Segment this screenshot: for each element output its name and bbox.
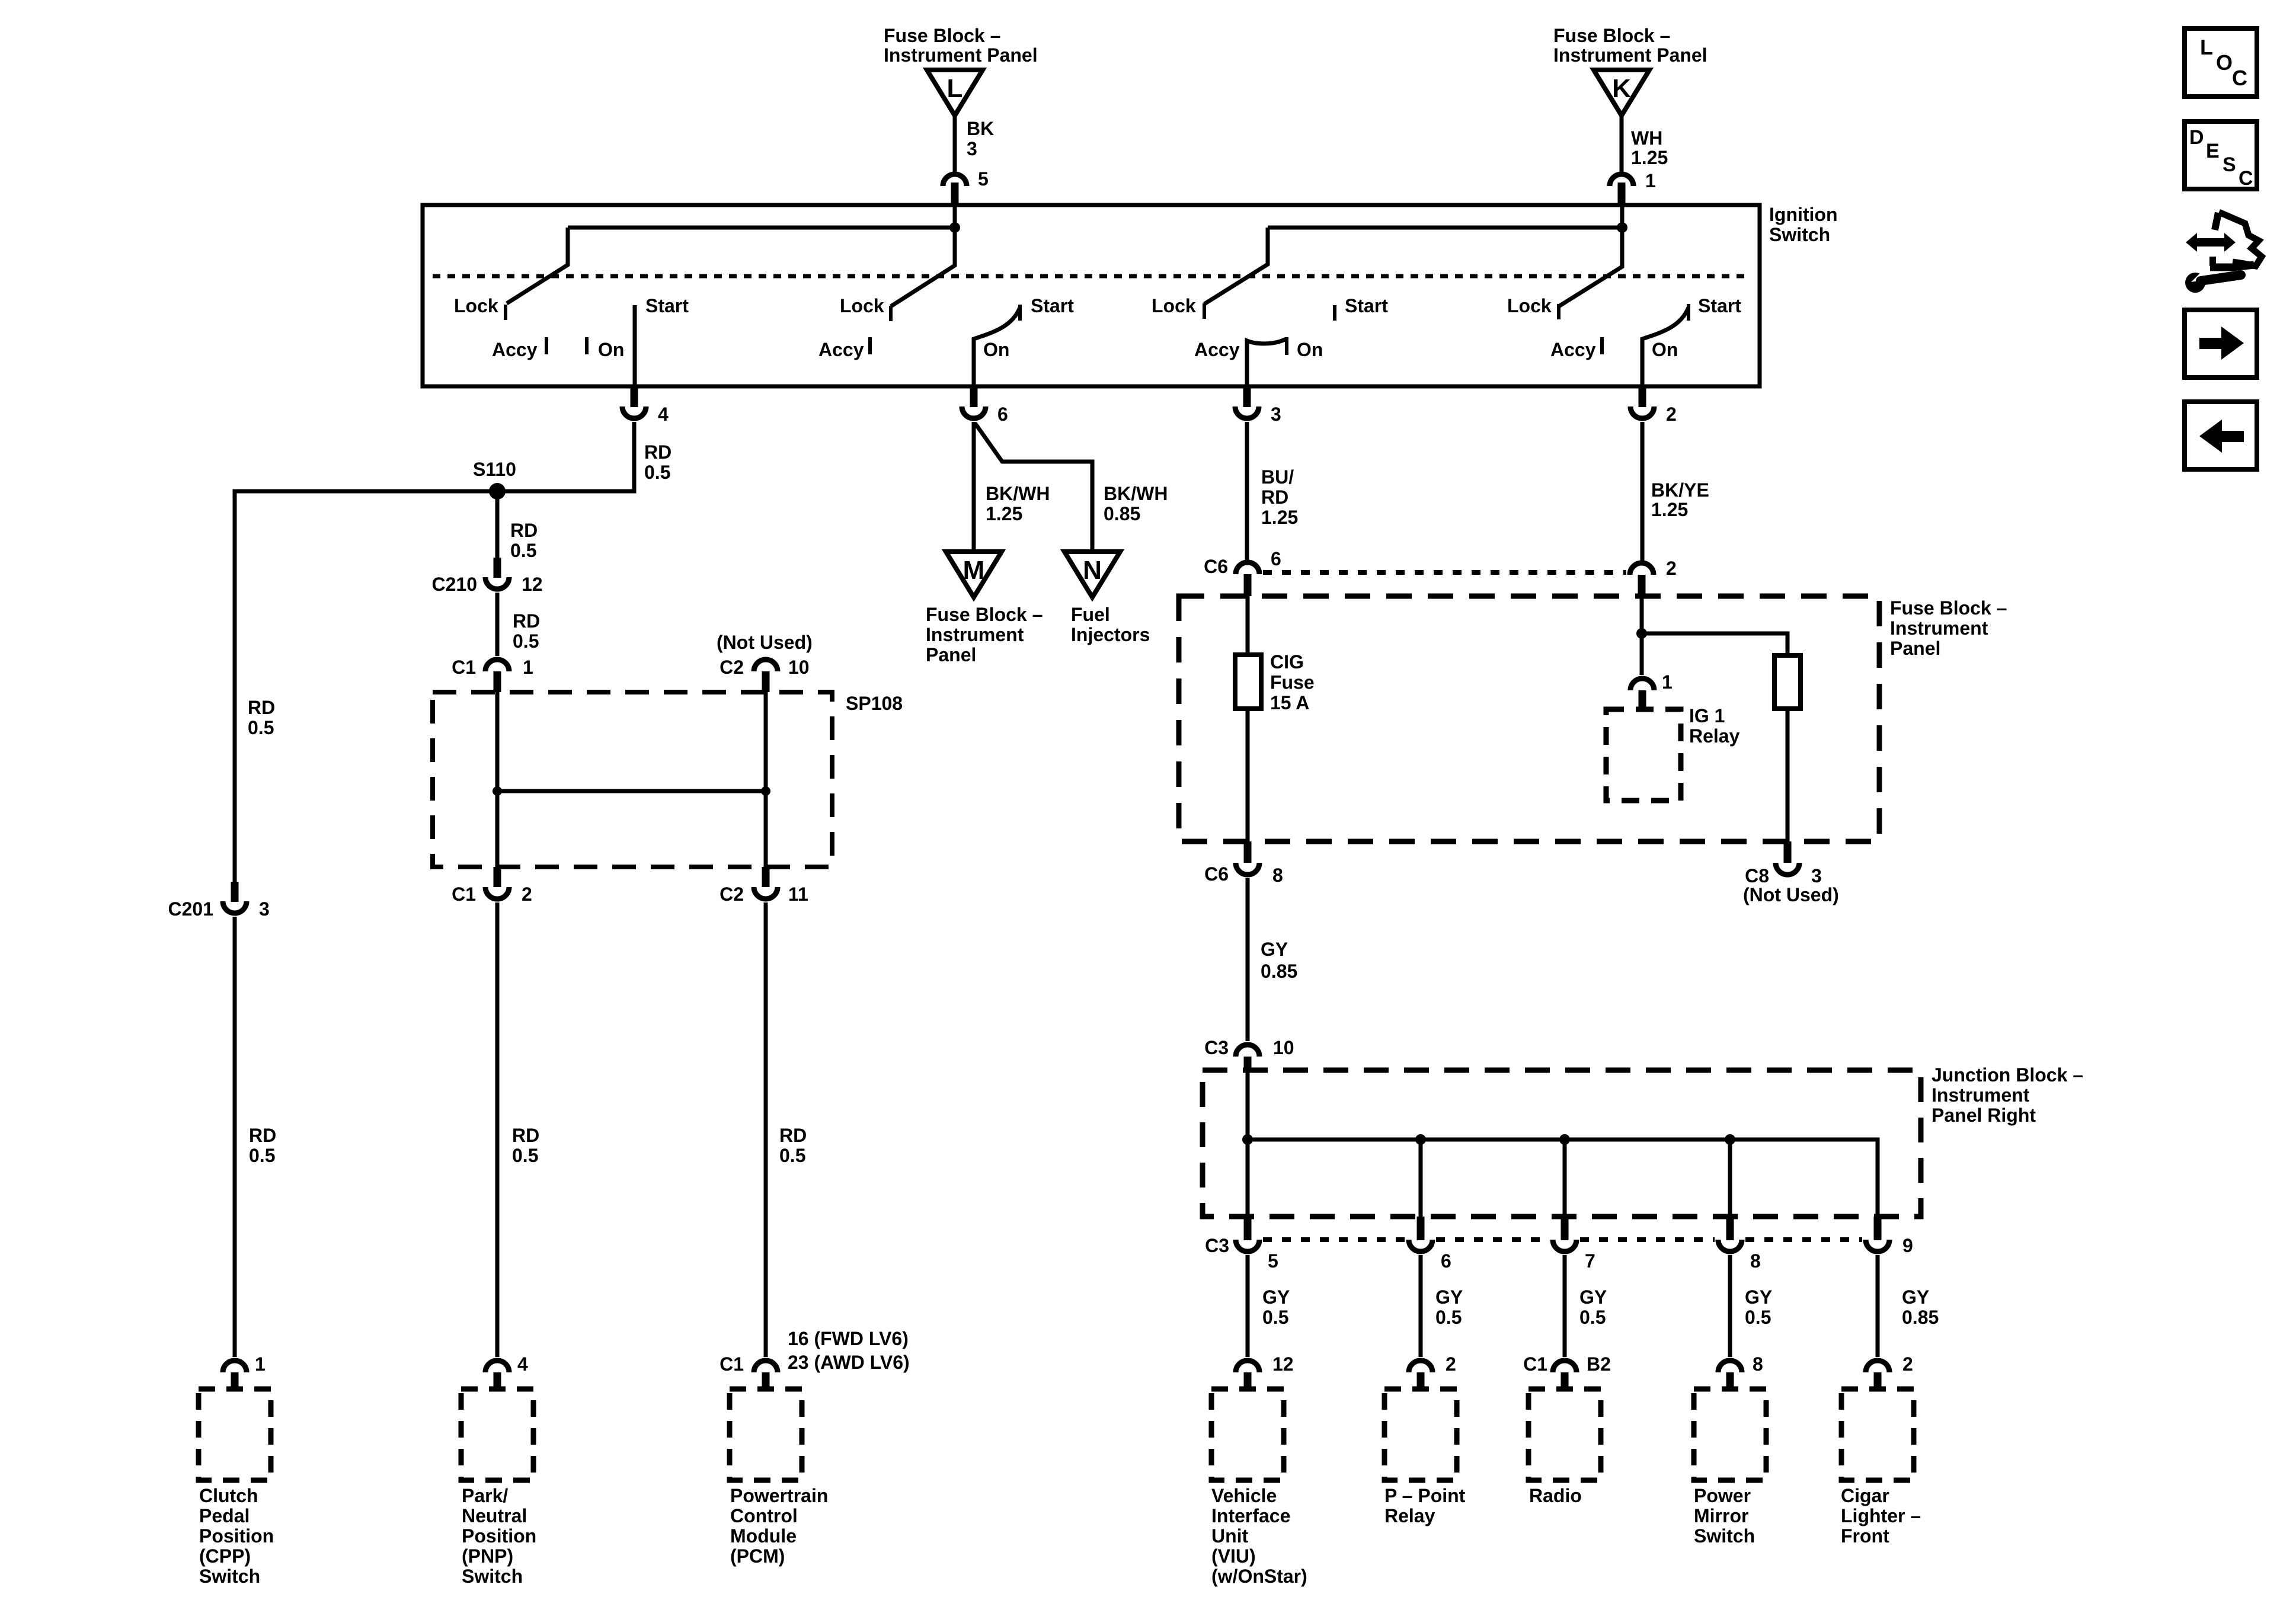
- svg-text:Cigar: Cigar: [1841, 1485, 1889, 1506]
- svg-text:S: S: [2223, 153, 2236, 176]
- svg-text:Accy: Accy: [818, 339, 864, 360]
- svg-text:C8: C8: [1745, 865, 1769, 886]
- svg-text:Relay: Relay: [1689, 725, 1740, 747]
- svg-text:6: 6: [997, 404, 1008, 425]
- svg-text:P – Point: P – Point: [1384, 1485, 1466, 1506]
- svg-text:CIG: CIG: [1270, 651, 1304, 673]
- svg-text:2: 2: [1902, 1353, 1913, 1375]
- svg-text:2: 2: [522, 884, 532, 905]
- svg-text:C6: C6: [1204, 863, 1229, 885]
- svg-text:RD: RD: [1261, 486, 1288, 508]
- svg-text:Position: Position: [199, 1525, 274, 1547]
- svg-text:Lock: Lock: [1507, 295, 1552, 316]
- svg-text:1: 1: [523, 657, 533, 678]
- svg-text:1: 1: [255, 1353, 266, 1375]
- svg-text:1.25: 1.25: [1651, 499, 1688, 520]
- svg-text:O: O: [2216, 50, 2233, 75]
- svg-text:4: 4: [517, 1353, 528, 1375]
- svg-text:Instrument Panel: Instrument Panel: [1553, 44, 1707, 66]
- svg-text:2: 2: [1666, 404, 1677, 425]
- svg-text:GY: GY: [1902, 1286, 1929, 1308]
- svg-text:2: 2: [1446, 1353, 1456, 1375]
- svg-text:Fuse Block –: Fuse Block –: [926, 604, 1043, 625]
- svg-text:4: 4: [658, 404, 669, 425]
- svg-text:C201: C201: [168, 898, 214, 920]
- svg-text:1.25: 1.25: [1261, 507, 1298, 528]
- svg-text:0.85: 0.85: [1902, 1307, 1939, 1328]
- svg-text:Mirror: Mirror: [1694, 1505, 1748, 1526]
- svg-text:0.5: 0.5: [248, 717, 274, 738]
- svg-text:Interface: Interface: [1211, 1505, 1290, 1526]
- svg-text:3: 3: [259, 898, 270, 920]
- svg-text:Instrument: Instrument: [1932, 1084, 2030, 1106]
- svg-text:SP108: SP108: [846, 693, 903, 714]
- svg-text:(Not Used): (Not Used): [1743, 884, 1839, 905]
- svg-text:5: 5: [1268, 1250, 1278, 1272]
- svg-text:Position: Position: [462, 1525, 536, 1547]
- svg-text:BK/WH: BK/WH: [1104, 483, 1168, 504]
- svg-text:GY: GY: [1261, 939, 1288, 960]
- svg-text:C3: C3: [1204, 1037, 1229, 1058]
- svg-text:C2: C2: [720, 884, 744, 905]
- svg-text:Neutral: Neutral: [462, 1505, 527, 1526]
- svg-text:Vehicle: Vehicle: [1211, 1485, 1277, 1506]
- svg-text:(Not Used): (Not Used): [717, 632, 813, 653]
- svg-text:BK: BK: [967, 118, 994, 139]
- svg-text:0.85: 0.85: [1261, 961, 1297, 982]
- svg-text:Panel Right: Panel Right: [1932, 1105, 2036, 1126]
- svg-text:E: E: [2206, 140, 2220, 162]
- svg-text:Start: Start: [645, 295, 689, 316]
- svg-text:0.5: 0.5: [779, 1145, 805, 1166]
- svg-text:RD: RD: [513, 610, 540, 632]
- svg-text:D: D: [2189, 126, 2204, 149]
- svg-text:Fuse Block –: Fuse Block –: [884, 25, 1000, 46]
- svg-text:Switch: Switch: [1694, 1525, 1755, 1547]
- svg-text:C1: C1: [1523, 1353, 1547, 1375]
- svg-text:1: 1: [1645, 170, 1656, 191]
- svg-text:Panel: Panel: [1890, 638, 1940, 659]
- svg-text:Instrument: Instrument: [926, 624, 1024, 645]
- svg-text:8: 8: [1272, 865, 1283, 886]
- svg-text:C6: C6: [1204, 556, 1228, 577]
- svg-text:RD: RD: [249, 1125, 276, 1146]
- svg-text:Lock: Lock: [1152, 295, 1196, 316]
- svg-text:B2: B2: [1587, 1353, 1611, 1375]
- svg-text:WH: WH: [1631, 127, 1662, 149]
- svg-text:9: 9: [1902, 1235, 1913, 1256]
- svg-text:RD: RD: [644, 441, 671, 463]
- svg-text:15 A: 15 A: [1270, 692, 1309, 713]
- svg-text:(VIU): (VIU): [1211, 1545, 1256, 1567]
- svg-text:Clutch: Clutch: [199, 1485, 258, 1506]
- svg-text:6: 6: [1271, 548, 1281, 569]
- svg-text:Start: Start: [1698, 295, 1741, 316]
- svg-text:1: 1: [1662, 671, 1673, 693]
- svg-text:C2: C2: [720, 657, 744, 678]
- svg-text:N: N: [1083, 556, 1102, 585]
- svg-text:0.5: 0.5: [513, 630, 539, 652]
- svg-text:3: 3: [1271, 404, 1281, 425]
- svg-text:1.25: 1.25: [1631, 147, 1668, 168]
- svg-text:C1: C1: [452, 657, 476, 678]
- svg-text:Park/: Park/: [462, 1485, 508, 1506]
- svg-text:0.5: 0.5: [1745, 1307, 1771, 1328]
- svg-text:1.25: 1.25: [986, 503, 1022, 524]
- svg-text:Accy: Accy: [492, 339, 538, 360]
- svg-text:3: 3: [1811, 865, 1822, 886]
- svg-text:On: On: [1652, 339, 1678, 360]
- svg-text:K: K: [1612, 74, 1631, 103]
- svg-text:Pedal: Pedal: [199, 1505, 250, 1526]
- svg-text:10: 10: [1273, 1037, 1294, 1058]
- svg-text:12: 12: [1272, 1353, 1294, 1375]
- svg-text:BU/: BU/: [1261, 466, 1294, 488]
- svg-text:Lock: Lock: [840, 295, 884, 316]
- svg-text:RD: RD: [779, 1125, 807, 1146]
- svg-text:BK/WH: BK/WH: [986, 483, 1050, 504]
- svg-text:0.5: 0.5: [1435, 1307, 1462, 1328]
- svg-text:(w/OnStar): (w/OnStar): [1211, 1566, 1307, 1587]
- svg-text:23 (AWD LV6): 23 (AWD LV6): [788, 1352, 910, 1373]
- svg-text:Panel: Panel: [926, 644, 976, 665]
- svg-text:Fuse: Fuse: [1270, 672, 1315, 693]
- svg-text:Switch: Switch: [199, 1566, 260, 1587]
- svg-text:C1: C1: [452, 884, 476, 905]
- svg-text:Relay: Relay: [1384, 1505, 1435, 1526]
- svg-text:RD: RD: [510, 520, 538, 541]
- svg-text:Powertrain: Powertrain: [730, 1485, 828, 1506]
- svg-text:Instrument: Instrument: [1890, 617, 1988, 639]
- svg-text:10: 10: [788, 657, 810, 678]
- svg-text:3: 3: [967, 138, 977, 159]
- svg-text:(PNP): (PNP): [462, 1545, 513, 1567]
- svg-text:0.5: 0.5: [249, 1145, 275, 1166]
- svg-text:On: On: [983, 339, 1009, 360]
- svg-text:(CPP): (CPP): [199, 1545, 251, 1567]
- svg-text:Fuse Block –: Fuse Block –: [1553, 25, 1670, 46]
- svg-text:GY: GY: [1435, 1286, 1463, 1308]
- svg-text:0.85: 0.85: [1104, 503, 1140, 524]
- svg-text:GY: GY: [1262, 1286, 1290, 1308]
- svg-text:0.5: 0.5: [512, 1145, 538, 1166]
- svg-text:(PCM): (PCM): [730, 1545, 785, 1567]
- svg-text:RD: RD: [248, 697, 275, 718]
- svg-text:Unit: Unit: [1211, 1525, 1249, 1547]
- svg-text:16 (FWD LV6): 16 (FWD LV6): [788, 1328, 909, 1349]
- svg-text:On: On: [598, 339, 624, 360]
- svg-text:Power: Power: [1694, 1485, 1751, 1506]
- svg-text:Module: Module: [730, 1525, 797, 1547]
- svg-text:C3: C3: [1205, 1235, 1229, 1256]
- svg-text:On: On: [1297, 339, 1323, 360]
- svg-text:Radio: Radio: [1529, 1485, 1582, 1506]
- svg-text:L: L: [947, 74, 963, 103]
- svg-text:7: 7: [1585, 1250, 1595, 1272]
- svg-text:0.5: 0.5: [644, 462, 670, 483]
- svg-text:12: 12: [522, 574, 543, 595]
- svg-text:BK/YE: BK/YE: [1651, 479, 1709, 501]
- svg-text:IG 1: IG 1: [1689, 705, 1725, 726]
- svg-text:0.5: 0.5: [1262, 1307, 1288, 1328]
- svg-text:0.5: 0.5: [510, 540, 536, 561]
- svg-text:Accy: Accy: [1550, 339, 1596, 360]
- svg-text:M: M: [963, 556, 985, 585]
- svg-text:0.5: 0.5: [1579, 1307, 1606, 1328]
- svg-text:Fuel: Fuel: [1071, 604, 1110, 625]
- svg-text:S110: S110: [473, 459, 516, 480]
- svg-text:Front: Front: [1841, 1525, 1889, 1547]
- svg-text:Lighter –: Lighter –: [1841, 1505, 1921, 1526]
- svg-text:Lock: Lock: [454, 295, 498, 316]
- svg-text:GY: GY: [1579, 1286, 1607, 1308]
- svg-text:RD: RD: [512, 1125, 539, 1146]
- svg-text:Injectors: Injectors: [1071, 624, 1150, 645]
- svg-text:C1: C1: [720, 1353, 744, 1375]
- svg-text:L: L: [2200, 35, 2213, 59]
- svg-text:Switch: Switch: [1769, 224, 1830, 245]
- svg-text:11: 11: [788, 884, 808, 905]
- svg-text:8: 8: [1753, 1353, 1763, 1375]
- svg-text:Start: Start: [1345, 295, 1388, 316]
- svg-text:Instrument Panel: Instrument Panel: [884, 44, 1038, 66]
- svg-text:Junction Block –: Junction Block –: [1932, 1064, 2083, 1086]
- svg-text:Control: Control: [730, 1505, 798, 1526]
- svg-text:Accy: Accy: [1194, 339, 1240, 360]
- svg-text:C210: C210: [432, 574, 478, 595]
- svg-text:2: 2: [1666, 558, 1677, 579]
- svg-text:8: 8: [1750, 1250, 1761, 1272]
- svg-text:C: C: [2239, 167, 2253, 190]
- svg-text:5: 5: [978, 168, 989, 190]
- svg-text:Ignition: Ignition: [1769, 204, 1838, 225]
- svg-text:Start: Start: [1031, 295, 1074, 316]
- svg-text:Fuse Block –: Fuse Block –: [1890, 597, 2007, 619]
- svg-text:6: 6: [1441, 1250, 1451, 1272]
- svg-text:GY: GY: [1745, 1286, 1772, 1308]
- svg-text:Switch: Switch: [462, 1566, 523, 1587]
- svg-text:C: C: [2232, 66, 2247, 90]
